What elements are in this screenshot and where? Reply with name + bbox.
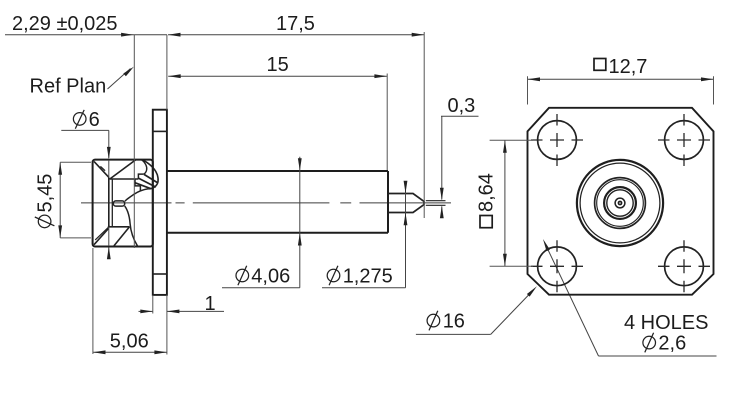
- mounting hole top-right: [665, 121, 704, 160]
- body top chamfer diagonal: [94, 161, 109, 177]
- connector inner ring: [604, 187, 636, 219]
- bead staircase upper: [138, 174, 143, 179]
- connector outer ring inner: [580, 163, 660, 243]
- dim Ø2,6 arrow: [543, 239, 550, 251]
- socket lower S-curve: [125, 206, 138, 246]
- Ref Plan leader: [108, 69, 131, 90]
- dim 17,5 left arrow: [168, 33, 181, 37]
- crosshair bottom-left hole: [531, 240, 583, 292]
- ref plane extension line: [133, 35, 135, 248]
- dim Ø5,45 ext bottom: [60, 237, 91, 239]
- extension lines 8,64: [490, 140, 533, 266]
- dim Ø5,45 top arrow: [58, 162, 62, 175]
- Ref Plan arrow: [123, 67, 134, 77]
- flange front view octagon: [528, 108, 714, 295]
- dim Ø1,275 lower arrow: [404, 213, 408, 226]
- svg-text:12,7: 12,7: [609, 56, 648, 78]
- svg-text:16: 16: [443, 311, 465, 333]
- bead hatch line 1: [144, 174, 158, 183]
- centerline side view: [81, 202, 451, 204]
- bore left wall outer: [108, 177, 110, 227]
- flange side view plate: [153, 110, 167, 295]
- barrel outline: [167, 171, 388, 233]
- pin outline: [388, 194, 424, 213]
- dim 1 left arrow: [140, 310, 153, 314]
- body top chamfer double line: [100, 166, 105, 170]
- mounting hole bottom-right: [665, 247, 704, 286]
- label square symbol 8,64: [480, 216, 492, 228]
- dim Ø4,06 upper arrow: [298, 158, 302, 171]
- dim 2,29 line: [5, 34, 167, 36]
- bore left wall inner: [111, 179, 113, 227]
- svg-text:1,275: 1,275: [343, 265, 393, 287]
- extension line flange face: [166, 35, 168, 355]
- svg-text:8,64: 8,64: [476, 173, 498, 212]
- extension lines 12,7: [528, 76, 714, 104]
- label Ø5,45 rotated: [35, 174, 57, 228]
- dim 0,3 upper arrow: [440, 188, 444, 201]
- dim 2,29 arrow: [121, 33, 134, 37]
- bore top edge: [110, 178, 139, 180]
- svg-text:2,6: 2,6: [658, 333, 686, 355]
- connector inner ring inner: [607, 190, 633, 216]
- dim 17,5 right arrow: [412, 33, 425, 37]
- dim 15 line: [168, 75, 387, 77]
- dim Ø5,45 ext top: [60, 161, 91, 163]
- crosshair top-left hole: [531, 114, 583, 166]
- bore bottom edge: [108, 226, 130, 228]
- bead inner arc: [142, 160, 147, 174]
- dim 15 left arrow: [168, 74, 181, 78]
- mounting hole bottom-left: [538, 247, 577, 286]
- extension line pin tip: [423, 32, 425, 218]
- dim Ø16 leader: [491, 293, 531, 334]
- dim 1 right line: [167, 310, 224, 312]
- dim Ø5,45 line: [59, 162, 61, 238]
- dim 0,3 underline: [441, 115, 479, 117]
- extension line barrel end: [386, 74, 388, 171]
- dim Ø4,06 vertical upper: [299, 157, 301, 288]
- svg-text:6: 6: [89, 109, 100, 131]
- bottom cone line: [114, 227, 130, 246]
- dim Ø6 top arrow: [107, 147, 111, 160]
- dim 0,3 leader: [441, 116, 443, 217]
- connector mid ring: [595, 178, 646, 229]
- bead blob outline: [142, 160, 158, 189]
- dim Ø6 underline: [61, 129, 109, 131]
- dim Ø2,6 leader: [546, 245, 599, 357]
- dim Ø1,275 underline: [322, 287, 406, 289]
- dim Ø2,6 underline: [599, 355, 717, 357]
- svg-text:0,3: 0,3: [448, 95, 476, 117]
- dim 1 right arrow: [167, 310, 180, 314]
- dim Ø16 arrow: [527, 286, 537, 296]
- extension body left lower: [92, 248, 94, 354]
- label Ø1,275 symbol: [327, 266, 340, 286]
- label square symbol 12,7: [594, 59, 606, 71]
- bead hatch line 2: [138, 178, 156, 187]
- dim Ø1,275 vertical upper: [405, 181, 407, 288]
- dim 0,3 lower arrow: [440, 206, 444, 219]
- dim Ø4,06 lower arrow: [298, 233, 302, 246]
- crosshair bottom-right hole: [658, 240, 710, 292]
- bead hatch line 3: [135, 183, 151, 189]
- dim 5,06 right arrow: [154, 350, 167, 354]
- label Ø16 symbol: [427, 311, 440, 331]
- label Ø6 symbol: [73, 110, 86, 129]
- center pin hole: [619, 202, 621, 204]
- svg-text:1: 1: [205, 293, 216, 315]
- dim 5,06 line: [93, 351, 167, 353]
- connector body outline (side view): [93, 160, 153, 247]
- body bottom chamfer diagonal: [94, 229, 108, 245]
- dim 1 left line: [139, 310, 153, 312]
- dim Ø16 underline: [416, 333, 491, 335]
- flange chamfer line bottom: [153, 273, 167, 275]
- dim Ø1,275 upper arrow: [404, 181, 408, 194]
- dim 12,7 left arrow: [528, 77, 541, 81]
- dim square 12,7 line: [528, 78, 714, 80]
- connector outer ring: [577, 160, 663, 246]
- svg-text:Ref Plan: Ref Plan: [30, 76, 107, 98]
- dim 17,5 line: [168, 34, 424, 36]
- svg-text:5,06: 5,06: [110, 331, 149, 353]
- wire tip top: [426, 200, 446, 202]
- crosshair top-right hole: [658, 114, 710, 166]
- dim Ø6 bottom arrow: [107, 247, 111, 260]
- wire tip bottom: [426, 204, 446, 206]
- body bottom chamfer double line: [95, 226, 110, 240]
- mounting hole top-left: [538, 121, 577, 160]
- dim 8,64 top arrow: [503, 140, 507, 153]
- body top cone line: [110, 160, 136, 179]
- socket upper S-curve: [125, 189, 148, 201]
- dim 15 right arrow: [374, 74, 387, 78]
- label Ø4,06 symbol: [236, 266, 249, 286]
- connector socket circle: [615, 198, 625, 208]
- svg-text:4,06: 4,06: [251, 265, 290, 287]
- dim 8,64 bottom arrow: [503, 254, 507, 266]
- svg-text:15: 15: [267, 54, 289, 76]
- dim Ø5,45 bottom arrow: [58, 225, 62, 238]
- extension flange left lower: [152, 295, 154, 314]
- dim Ø4,06 underline: [222, 287, 300, 289]
- connector mid ring inner: [597, 180, 644, 227]
- bead staircase lower: [135, 179, 140, 191]
- svg-text:4 HOLES: 4 HOLES: [624, 312, 708, 334]
- dim Ø6 leader: [108, 130, 110, 258]
- dim square 8,64 line: [504, 140, 506, 266]
- dim 12,7 right arrow: [701, 77, 714, 81]
- flange chamfer line top: [153, 130, 167, 132]
- socket tab: [113, 201, 124, 206]
- label Ø2,6 symbol: [643, 333, 656, 353]
- dim 5,06 left arrow: [93, 350, 106, 354]
- svg-text:5,45: 5,45: [35, 174, 57, 213]
- center pin dot: [618, 201, 623, 206]
- svg-text:17,5: 17,5: [276, 13, 315, 35]
- svg-text:2,29 ±0,025: 2,29 ±0,025: [12, 13, 118, 35]
